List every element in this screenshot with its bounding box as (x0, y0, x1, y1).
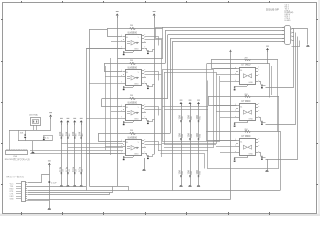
svg-text:A1: A1 (240, 140, 242, 143)
svg-text:GND: GND (134, 49, 139, 51)
svg-text:10K: 10K (20, 132, 24, 134)
svg-text:10K: 10K (78, 131, 82, 136)
svg-text:0.1u: 0.1u (71, 166, 75, 172)
svg-text:GND: GND (134, 84, 139, 86)
svg-text:10K: 10K (195, 115, 199, 120)
svg-text:GND: GND (134, 154, 139, 156)
svg-text:10K: 10K (178, 133, 182, 138)
svg-text:2M: 2M (130, 130, 133, 132)
svg-text:U4 X'TAL: U4 X'TAL (29, 113, 39, 116)
svg-text:2M: 2M (130, 25, 133, 27)
svg-text:10K: 10K (187, 170, 191, 175)
svg-text:U7 9600: U7 9600 (241, 100, 251, 103)
svg-text:GND: GND (10, 198, 15, 200)
svg-text:DSUB 9P: DSUB 9P (266, 7, 279, 11)
svg-text:10K: 10K (71, 131, 75, 136)
svg-text:U7 9600: U7 9600 (241, 135, 251, 138)
svg-text:A1: A1 (126, 106, 128, 109)
svg-text:10K: 10K (187, 133, 191, 138)
svg-text:0.1u: 0.1u (58, 166, 62, 172)
svg-text:GND: GND (248, 82, 253, 84)
svg-text:A1: A1 (126, 36, 128, 39)
svg-text:U7 9600: U7 9600 (241, 63, 251, 66)
svg-text:10K: 10K (178, 115, 182, 120)
svg-text:A1: A1 (240, 69, 242, 72)
svg-text:2M: 2M (130, 95, 133, 97)
svg-text:A1: A1 (126, 141, 128, 144)
svg-text:10K: 10K (64, 131, 68, 136)
svg-text:0.1u: 0.1u (64, 166, 68, 172)
svg-text:GND: GND (248, 118, 253, 120)
svg-text:10K: 10K (187, 115, 191, 120)
svg-text:10K: 10K (58, 131, 62, 136)
svg-text:GND: GND (248, 153, 253, 155)
svg-text:GND: GND (134, 119, 139, 121)
svg-text:10K: 10K (195, 170, 199, 175)
svg-text:10K: 10K (178, 170, 182, 175)
svg-text:2M: 2M (130, 60, 133, 62)
svg-text:0.1uF: 0.1uF (51, 183, 57, 185)
svg-text:E.GND: E.GND (285, 20, 292, 22)
svg-text:A1: A1 (240, 105, 242, 108)
svg-text:0.1u: 0.1u (78, 166, 82, 172)
svg-text:10K: 10K (195, 133, 199, 138)
svg-text:A1: A1 (126, 71, 128, 74)
